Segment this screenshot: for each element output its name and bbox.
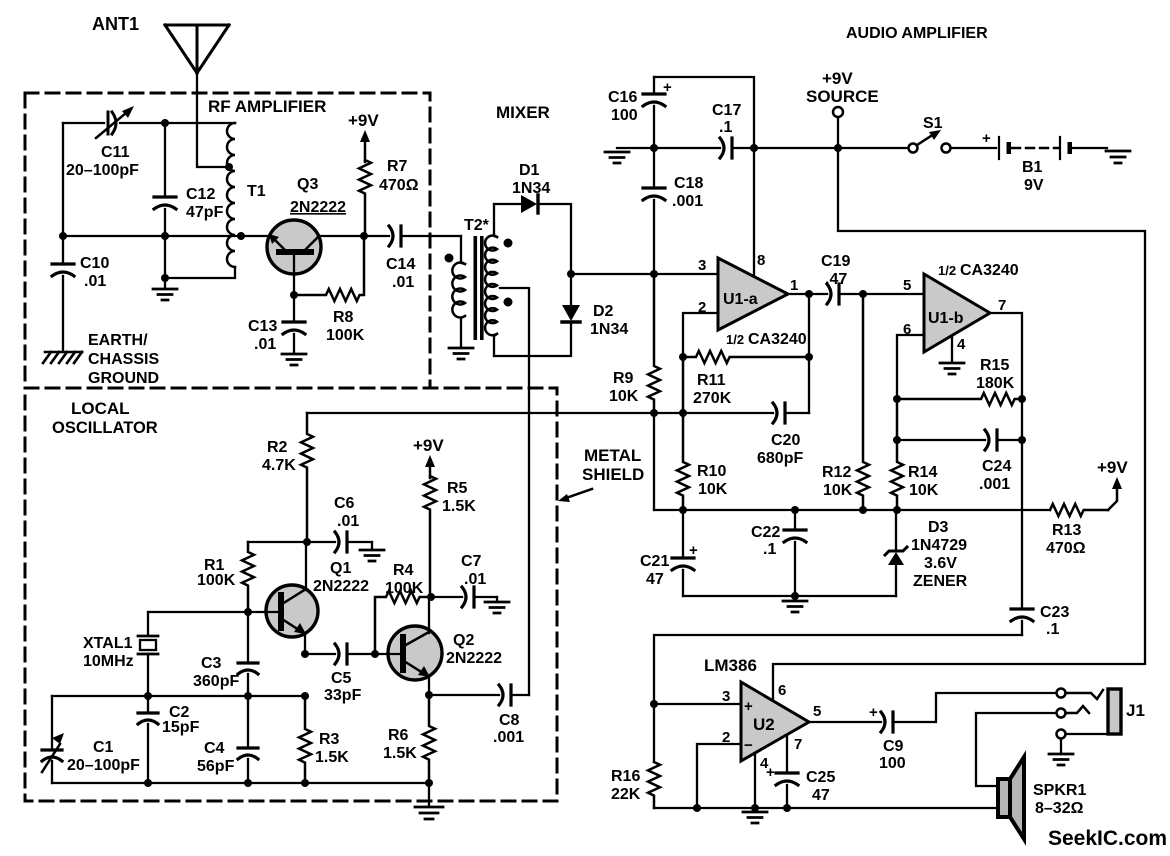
capacitor C12 — [164, 123, 166, 195]
svg-text:Q1: Q1 — [330, 560, 351, 577]
svg-text:4: 4 — [957, 336, 966, 353]
node R11 right — [805, 353, 813, 361]
wire mid rail y510 — [654, 509, 1050, 511]
svg-text:33pF: 33pF — [324, 687, 362, 704]
node R4 right / Q2 collector — [427, 593, 435, 601]
svg-text:C19: C19 — [821, 253, 850, 270]
capacitor C2 — [147, 696, 149, 711]
node R10 bottom rail — [679, 506, 687, 514]
node R3 bottom rail — [301, 779, 309, 787]
node R12 bottom rail — [859, 506, 867, 514]
node R15 left — [893, 395, 901, 403]
node C22 top rail — [791, 506, 799, 514]
ground at +9V rail left — [617, 147, 654, 149]
node C4 bottom rail — [244, 779, 252, 787]
capacitor C14 — [364, 235, 389, 237]
node C18/R9 column on signal line — [650, 270, 658, 278]
node C24 right — [1018, 436, 1026, 444]
resistor R13 — [1050, 504, 1108, 516]
capacitor C1 (variable) — [51, 696, 53, 748]
node C25 bottom rail — [783, 804, 791, 812]
capacitor C19 — [827, 284, 839, 304]
ground below jack sleeve — [1060, 739, 1062, 754]
transistor Q3 — [267, 220, 321, 274]
svg-text:+: + — [689, 542, 698, 559]
svg-text:U1-a: U1-a — [723, 291, 758, 308]
terminal +9V SOURCE — [833, 107, 843, 117]
svg-text:C6: C6 — [334, 495, 355, 512]
resistor R2 — [301, 413, 313, 542]
svg-text:ANT1: ANT1 — [92, 14, 139, 34]
capacitor C6 — [307, 541, 335, 543]
capacitor C10 — [52, 264, 74, 276]
svg-text:1N34: 1N34 — [512, 180, 550, 197]
ground right of C6 — [371, 542, 373, 549]
resistor R5 — [424, 476, 436, 597]
capacitor C20 — [773, 403, 785, 423]
svg-text:ZENER: ZENER — [913, 573, 968, 590]
svg-text:C22: C22 — [751, 524, 780, 541]
svg-text:22K: 22K — [611, 786, 641, 803]
svg-text:T2*: T2* — [464, 217, 490, 234]
svg-text:EARTH/: EARTH/ — [88, 332, 148, 349]
svg-text:10K: 10K — [609, 388, 639, 405]
svg-text:10K: 10K — [823, 482, 853, 499]
svg-text:8–32Ω: 8–32Ω — [1035, 800, 1084, 817]
svg-text:J1: J1 — [1126, 701, 1145, 720]
svg-text:C16: C16 — [608, 89, 637, 106]
svg-text:7: 7 — [794, 736, 802, 753]
svg-text:+: + — [982, 130, 991, 147]
svg-text:15pF: 15pF — [162, 719, 200, 736]
capacitor C17 — [654, 147, 720, 149]
svg-text:1/2: 1/2 — [726, 332, 744, 347]
svg-text:1/2: 1/2 — [938, 263, 956, 278]
resistor R11 — [683, 351, 809, 363]
resistor R10 — [677, 357, 689, 510]
svg-text:1: 1 — [790, 277, 798, 294]
node pin2 ground junction — [693, 804, 701, 812]
ground right of B1 — [1106, 151, 1130, 163]
svg-text:R11: R11 — [697, 372, 726, 389]
node R12 top — [859, 290, 867, 298]
resistor R15 — [897, 393, 1022, 405]
svg-text:+: + — [869, 704, 878, 721]
svg-text:U1-b: U1-b — [928, 310, 964, 327]
svg-text:−: − — [744, 737, 753, 754]
svg-text:.1: .1 — [763, 541, 776, 558]
wire U2 output pin5 — [809, 721, 881, 723]
capacitor C25 (polarized) on pin7 — [786, 735, 788, 771]
svg-text:47pF: 47pF — [186, 204, 224, 221]
svg-text:LM386: LM386 — [704, 656, 757, 675]
svg-text:SeekIC.com: SeekIC.com — [1048, 827, 1167, 850]
ground U1-b pin4 — [951, 336, 953, 362]
svg-text:R15: R15 — [980, 357, 1009, 374]
svg-text:R13: R13 — [1052, 522, 1081, 539]
svg-text:C20: C20 — [771, 432, 800, 449]
node XTAL bottom / C2 — [144, 692, 152, 700]
node antenna tap on T1 — [225, 163, 233, 171]
ground below T2 primary — [449, 348, 473, 359]
wire U1-a pin2 — [683, 313, 718, 357]
svg-text:.01: .01 — [464, 571, 486, 588]
svg-text:1.5K: 1.5K — [442, 498, 476, 515]
svg-text:C24: C24 — [982, 458, 1011, 475]
jack J1 body — [1108, 689, 1121, 734]
svg-text:C13: C13 — [248, 318, 277, 335]
capacitor C22 — [794, 510, 796, 528]
power +9V arrow LO — [429, 464, 432, 478]
op-amp U1-b — [924, 274, 990, 352]
svg-text:+: + — [744, 698, 753, 715]
svg-text:4.7K: 4.7K — [262, 457, 296, 474]
svg-text:5: 5 — [813, 703, 821, 720]
svg-text:C17: C17 — [712, 102, 741, 119]
node C5 right / R4 left — [371, 650, 379, 658]
node emitter divider — [301, 692, 309, 700]
svg-text:270K: 270K — [693, 390, 732, 407]
svg-text:D1: D1 — [519, 162, 540, 179]
wire R9 column to mid rail — [653, 413, 655, 510]
svg-text:METAL: METAL — [584, 446, 641, 465]
wire U1-a output pin1 — [788, 293, 827, 295]
svg-text:C11: C11 — [101, 144, 130, 161]
capacitor C18 — [653, 148, 655, 186]
svg-text:2: 2 — [722, 729, 730, 746]
svg-text:C18: C18 — [674, 175, 703, 192]
wire y236 line to Q3 — [63, 235, 270, 237]
svg-text:+9V: +9V — [1097, 458, 1128, 477]
wire T1 bottom to ground line — [165, 267, 235, 278]
svg-text:3.6V: 3.6V — [924, 555, 957, 572]
svg-text:20–100pF: 20–100pF — [67, 757, 140, 774]
svg-text:C9: C9 — [883, 738, 904, 755]
wire U2 ground rail — [654, 807, 998, 809]
svg-text:SPKR1: SPKR1 — [1033, 782, 1086, 799]
ground below C12 — [153, 289, 177, 300]
node R9 bottom — [650, 409, 658, 417]
speaker SPKR1 — [998, 779, 1010, 817]
capacitor C16 (polarized) — [653, 77, 655, 92]
inductor T1 — [227, 123, 235, 267]
resistor R9 — [648, 274, 660, 413]
node ground on bottom rail — [791, 592, 799, 600]
resistor R12 — [857, 294, 869, 510]
svg-text:2N2222: 2N2222 — [313, 578, 369, 595]
svg-text:.1: .1 — [1046, 621, 1059, 638]
op-amp U2 LM386 — [741, 682, 809, 761]
svg-text:56pF: 56pF — [197, 758, 235, 775]
node Q1 collector / C6 — [303, 538, 311, 546]
node T1 bottom tap junction — [237, 232, 245, 240]
jack J1 ring contact — [1057, 709, 1066, 718]
transformer T2 primary — [461, 236, 465, 264]
svg-text:R8: R8 — [333, 309, 354, 326]
capacitor C21 (polarized) — [682, 510, 684, 556]
node R6 bottom rail — [425, 779, 433, 787]
wire C23 to LM386 input column — [654, 635, 1022, 762]
node C12 bottom — [161, 274, 169, 282]
svg-text:Q2: Q2 — [453, 632, 474, 649]
zener diode D3 1N4729 — [895, 510, 897, 551]
svg-text:8: 8 — [757, 252, 765, 269]
node R14/D3 rail — [893, 506, 901, 514]
node Q1 emitter — [301, 650, 309, 658]
svg-text:CHASSIS: CHASSIS — [88, 351, 159, 368]
svg-text:.01: .01 — [84, 273, 106, 290]
svg-text:+9V: +9V — [822, 69, 853, 88]
node U1-a output — [805, 290, 813, 298]
wire pin8 column down to U1-a — [753, 148, 755, 278]
svg-text:XTAL1: XTAL1 — [83, 635, 133, 652]
svg-text:CA3240: CA3240 — [960, 262, 1019, 279]
svg-text:470Ω: 470Ω — [379, 177, 419, 194]
svg-text:B1: B1 — [1022, 159, 1043, 176]
svg-text:R4: R4 — [393, 562, 414, 579]
node C16/C18 on rail — [650, 144, 658, 152]
wire U2 pin4 — [754, 753, 756, 810]
wire U1-b pin6 — [897, 335, 924, 399]
svg-text:7: 7 — [998, 297, 1006, 314]
crystal XTAL1 — [148, 611, 248, 613]
svg-text:MIXER: MIXER — [496, 103, 550, 122]
node C2 bottom rail — [144, 779, 152, 787]
node left rail / C10 — [59, 232, 67, 240]
capacitor C7 — [431, 596, 462, 598]
resistor R7 — [359, 160, 371, 236]
resistor R4 — [375, 591, 431, 654]
capacitor C3 — [247, 612, 249, 661]
transformer T2 secondary — [494, 204, 497, 237]
wire top rail C11 line — [63, 122, 235, 124]
capacitor C8 — [429, 694, 499, 696]
svg-text:U2: U2 — [753, 715, 775, 734]
ground right of C7 — [496, 597, 498, 601]
svg-text:RF AMPLIFIER: RF AMPLIFIER — [208, 97, 326, 116]
svg-text:SOURCE: SOURCE — [806, 87, 879, 106]
wire y696 line — [52, 695, 305, 697]
svg-text:360pF: 360pF — [193, 673, 239, 690]
node C12 top — [161, 119, 169, 127]
svg-text:Q3: Q3 — [297, 176, 318, 193]
svg-text:C7: C7 — [461, 553, 482, 570]
ground below pin4 — [743, 812, 767, 823]
svg-text:C8: C8 — [499, 712, 520, 729]
resistor R16 — [648, 762, 660, 808]
svg-text:.01: .01 — [254, 336, 276, 353]
svg-text:.001: .001 — [979, 476, 1010, 493]
node +9V source junction — [834, 144, 842, 152]
svg-text:.1: .1 — [719, 119, 732, 136]
node pin4 on rail — [751, 804, 759, 812]
svg-text:6: 6 — [903, 321, 911, 338]
diode D1 1N34 — [494, 203, 521, 205]
capacitor C24 — [897, 439, 985, 441]
capacitor C9 (polarized) — [881, 712, 893, 732]
svg-text:AUDIO AMPLIFIER: AUDIO AMPLIFIER — [846, 25, 988, 42]
svg-text:SHIELD: SHIELD — [582, 465, 644, 484]
svg-text:20–100pF: 20–100pF — [66, 162, 139, 179]
wire antenna feed to T1 tap — [197, 73, 228, 167]
node LM386 pin3 junction — [650, 700, 658, 708]
svg-text:6: 6 — [778, 682, 786, 699]
antenna ANT1 — [165, 25, 229, 73]
svg-text:10MHz: 10MHz — [83, 653, 134, 670]
transistor Q2 — [388, 626, 442, 680]
svg-text:100K: 100K — [326, 327, 365, 344]
power +9V arrow RF — [364, 140, 367, 162]
transistor Q1 — [266, 585, 318, 637]
svg-text:+9V: +9V — [348, 111, 379, 130]
capacitor C4 — [247, 696, 249, 746]
svg-text:10K: 10K — [698, 481, 728, 498]
resistor R14 — [891, 399, 903, 510]
svg-text:180K: 180K — [976, 375, 1015, 392]
svg-text:100: 100 — [611, 107, 638, 124]
svg-text:C5: C5 — [331, 670, 352, 687]
LOCAL OSCILLATOR shield box — [25, 388, 557, 801]
resistor R3 — [299, 696, 311, 783]
capacitor C5 — [305, 653, 335, 655]
jack J1 sleeve contact — [1057, 730, 1066, 739]
node T2 primary phase dot — [445, 254, 454, 263]
svg-text:3: 3 — [722, 688, 730, 705]
node pin8 column on rail — [750, 144, 758, 152]
battery B1 — [998, 137, 1000, 159]
capacitor C11 (variable) — [108, 112, 116, 134]
svg-text:2: 2 — [698, 299, 706, 316]
svg-text:CA3240: CA3240 — [748, 331, 807, 348]
wire C16 top to pin8 column — [654, 77, 754, 148]
svg-text:10K: 10K — [909, 482, 939, 499]
svg-text:C10: C10 — [80, 255, 109, 272]
svg-text:C3: C3 — [201, 655, 222, 672]
wire T2 center tap to C8 line — [500, 288, 529, 695]
svg-text:.47: .47 — [825, 271, 847, 288]
svg-text:T1: T1 — [247, 183, 266, 200]
svg-text:R16: R16 — [611, 768, 640, 785]
svg-text:D2: D2 — [593, 303, 614, 320]
ground below bottom rail — [783, 596, 807, 612]
wire +9V distribution long run — [773, 148, 1145, 701]
switch S1 — [909, 144, 918, 153]
svg-text:C25: C25 — [806, 769, 835, 786]
svg-text:470Ω: 470Ω — [1046, 540, 1086, 557]
wire R1 top line — [248, 541, 307, 543]
svg-text:C12: C12 — [186, 186, 215, 203]
svg-text:.01: .01 — [337, 513, 359, 530]
wire mixer output to U1-a pin3 — [571, 273, 718, 275]
power +9V arrow right — [1108, 486, 1117, 510]
svg-text:1.5K: 1.5K — [315, 749, 349, 766]
node R11 left — [679, 353, 687, 361]
svg-text:D3: D3 — [928, 519, 949, 536]
capacitor C13 — [293, 295, 295, 320]
svg-text:9V: 9V — [1024, 177, 1044, 194]
svg-text:3: 3 — [698, 257, 706, 274]
svg-text:.01: .01 — [392, 274, 414, 291]
svg-text:5: 5 — [903, 277, 911, 294]
svg-text:680pF: 680pF — [757, 450, 803, 467]
wire U2 pin2 — [697, 744, 741, 808]
svg-text:R5: R5 — [447, 480, 468, 497]
wire ring contact to speaker — [976, 713, 1056, 786]
RF amplifier shield box — [25, 93, 430, 388]
node Q3 collector — [360, 232, 368, 240]
node Q2 emitter — [425, 691, 433, 699]
svg-text:R7: R7 — [387, 158, 408, 175]
node Q1 base — [244, 608, 252, 616]
svg-text:47: 47 — [646, 571, 664, 588]
svg-text:.001: .001 — [493, 729, 524, 746]
ground earth/chassis — [43, 352, 82, 363]
wire U2 pin3 — [654, 703, 741, 705]
svg-text:C14: C14 — [386, 256, 415, 273]
svg-text:R10: R10 — [697, 463, 726, 480]
node T1 line junction — [161, 232, 169, 240]
svg-text:C4: C4 — [204, 740, 225, 757]
node R10 top / bias line — [679, 409, 687, 417]
svg-text:100K: 100K — [197, 572, 236, 589]
svg-text:R9: R9 — [613, 370, 634, 387]
node T2 secondary phase dots — [504, 239, 513, 248]
svg-text:OSCILLATOR: OSCILLATOR — [52, 419, 158, 437]
node C24 left — [893, 436, 901, 444]
svg-text:GROUND: GROUND — [88, 370, 159, 387]
svg-text:1.5K: 1.5K — [383, 745, 417, 762]
jack J1 tip contact — [1057, 689, 1066, 698]
ground below C13 — [282, 354, 306, 365]
svg-text:.001: .001 — [672, 193, 703, 210]
node Q3 base — [290, 291, 298, 299]
svg-text:R2: R2 — [267, 439, 288, 456]
svg-text:+: + — [766, 764, 775, 781]
node mixer output — [567, 270, 575, 278]
capacitor C23 — [1011, 609, 1033, 621]
node C3 bottom — [244, 692, 252, 700]
svg-text:+9V: +9V — [413, 436, 444, 455]
svg-text:S1: S1 — [923, 115, 943, 132]
transformer T2 core — [474, 236, 478, 340]
svg-text:2N2222: 2N2222 — [290, 199, 346, 216]
wire U1-b output pin7 — [990, 313, 1022, 607]
svg-text:C23: C23 — [1040, 604, 1069, 621]
wire bias line y413 — [307, 412, 773, 414]
svg-text:LOCAL: LOCAL — [71, 399, 130, 418]
resistor R6 — [423, 695, 435, 783]
wire feedback column right — [808, 294, 810, 413]
wire LO bottom rail — [52, 782, 429, 784]
svg-text:+: + — [663, 79, 672, 96]
op-amp U1-a — [718, 258, 788, 330]
wire left rail — [62, 123, 64, 262]
svg-text:2N2222: 2N2222 — [446, 650, 502, 667]
diode D2 1N34 — [570, 274, 572, 305]
wire bottom bias rail y596 — [683, 595, 896, 597]
svg-text:R12: R12 — [822, 464, 851, 481]
metal shield arrow — [566, 489, 592, 498]
svg-text:R3: R3 — [319, 731, 340, 748]
ground below LO box — [428, 783, 430, 806]
svg-text:R6: R6 — [388, 727, 409, 744]
svg-text:100: 100 — [879, 755, 906, 772]
svg-text:C1: C1 — [93, 739, 114, 756]
svg-text:C21: C21 — [640, 553, 669, 570]
svg-text:1N4729: 1N4729 — [911, 537, 967, 554]
resistor R1 — [242, 542, 254, 612]
svg-text:47: 47 — [812, 787, 830, 804]
